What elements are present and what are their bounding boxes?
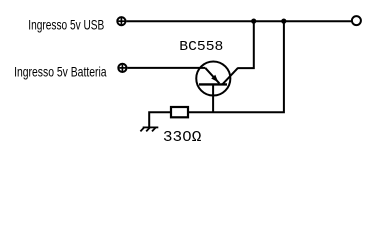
svg-text:Ingresso 5v Batteria: Ingresso 5v Batteria xyxy=(14,64,107,80)
transistor Q1 BC558 xyxy=(196,61,238,95)
wire rail to resistor net xyxy=(189,21,284,112)
resistor R1 330 ohm xyxy=(171,107,188,117)
wire base lead xyxy=(212,84,214,112)
svg-text:330Ω: 330Ω xyxy=(163,130,202,146)
wire ground to resistor xyxy=(149,112,170,127)
node junction dot A xyxy=(251,19,256,24)
terminal J3 (output, open circle) xyxy=(352,16,361,25)
svg-text:Ingresso 5v USB: Ingresso 5v USB xyxy=(28,16,104,32)
terminal J1 (Ingresso 5v USB, plus-circle) xyxy=(117,17,125,25)
terminal J2 (Ingresso 5v Batteria, plus-circle) xyxy=(118,64,126,72)
svg-text:BC558: BC558 xyxy=(179,39,223,55)
ground symbol xyxy=(140,127,158,131)
wire batteria to emitter xyxy=(128,67,206,69)
wire top +5V rail xyxy=(127,20,352,22)
wire collector to rail xyxy=(237,21,253,68)
node junction dot B xyxy=(281,19,286,24)
